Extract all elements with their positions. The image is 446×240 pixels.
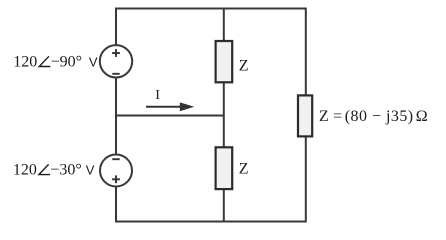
svg-text:−: − xyxy=(372,108,381,125)
svg-text:=: = xyxy=(333,108,342,125)
svg-text:Z: Z xyxy=(239,57,249,74)
svg-text:Z: Z xyxy=(239,161,249,178)
svg-text:−30°: −30° xyxy=(50,162,81,179)
svg-text:(80: (80 xyxy=(345,108,368,125)
svg-text:120: 120 xyxy=(13,162,37,179)
svg-text:I: I xyxy=(155,88,160,103)
svg-text:Ω: Ω xyxy=(416,108,428,125)
svg-text:V: V xyxy=(86,163,95,178)
svg-text:Z: Z xyxy=(319,108,329,125)
svg-text:j35): j35) xyxy=(385,108,414,125)
svg-text:120: 120 xyxy=(13,54,37,71)
svg-text:V: V xyxy=(89,55,98,70)
svg-text:−90°: −90° xyxy=(51,54,82,71)
